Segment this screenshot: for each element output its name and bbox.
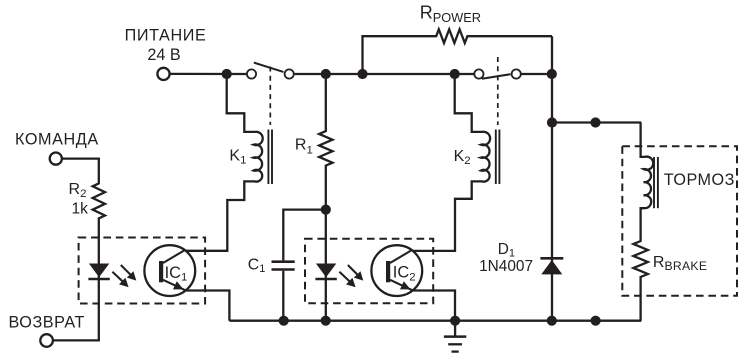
svg-text:K1: K1	[229, 148, 246, 167]
svg-text:RBRAKE: RBRAKE	[653, 254, 707, 273]
svg-text:R2: R2	[69, 181, 87, 200]
svg-text:C1: C1	[248, 257, 266, 275]
svg-text:D1: D1	[498, 241, 515, 260]
svg-text:RPOWER: RPOWER	[420, 3, 481, 25]
svg-text:1k: 1k	[72, 200, 89, 217]
svg-text:ПИТАНИЕ: ПИТАНИЕ	[125, 26, 207, 44]
svg-text:ТОРМОЗ: ТОРМОЗ	[664, 171, 735, 189]
svg-text:1N4007: 1N4007	[479, 258, 533, 275]
svg-text:R1: R1	[295, 136, 313, 156]
svg-text:24 В: 24 В	[147, 46, 180, 64]
svg-text:K2: K2	[454, 148, 471, 167]
svg-text:КОМАНДА: КОМАНДА	[15, 131, 99, 149]
svg-text:ВОЗВРАТ: ВОЗВРАТ	[9, 314, 85, 332]
